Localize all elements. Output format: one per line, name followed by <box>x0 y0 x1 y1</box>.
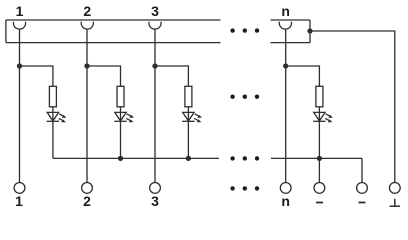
LED channel 2 <box>114 112 134 122</box>
terminal 3 <box>150 183 161 194</box>
LED channel 1 <box>47 112 67 122</box>
junction channel 2 branch <box>85 64 89 68</box>
resistor channel 1 <box>49 86 56 107</box>
junction minus bus / channel 3 <box>186 156 190 160</box>
connector housing top edge (right segment) <box>271 19 311 21</box>
wire channel n branch to resistor <box>286 66 320 86</box>
junction channel n branch <box>284 64 288 68</box>
connector housing bottom edge (right segment) <box>271 42 311 44</box>
terminal label minus 1 <box>316 202 323 204</box>
socket contact 1 <box>13 22 25 29</box>
socket contact 2 <box>81 22 93 29</box>
connector housing bottom edge (left segment) <box>6 42 221 44</box>
connector housing left edge <box>5 20 7 43</box>
ellipsis dots housing row <box>230 28 259 32</box>
svg-text:2: 2 <box>83 3 91 19</box>
terminal label minus 2 <box>359 202 366 204</box>
svg-text:2: 2 <box>83 193 91 209</box>
connector housing right edge <box>309 20 311 43</box>
wire channel 1 main (contact 1 to terminal 1) <box>19 29 21 182</box>
wire channel 1 branch to resistor <box>20 66 53 86</box>
socket contact n <box>279 22 291 29</box>
resistor channel n <box>316 86 323 107</box>
wire channel 3 resistor through LED to minus bus <box>187 107 189 159</box>
wire channel n main (contact n to terminal n) <box>285 29 287 182</box>
wire channel 2 resistor through LED to minus bus <box>120 107 122 159</box>
wire channel 2 main (contact 2 to terminal 2) <box>86 29 88 182</box>
earth ground symbol <box>390 199 400 206</box>
minus bus (left segment) <box>53 157 219 159</box>
svg-text:1: 1 <box>15 193 23 209</box>
socket contact 3 <box>149 22 161 29</box>
svg-text:3: 3 <box>151 3 159 19</box>
wire channel 3 branch to resistor <box>155 66 188 86</box>
junction housing right edge <box>308 29 312 33</box>
svg-text:1: 1 <box>16 3 24 19</box>
LED channel n <box>313 112 333 122</box>
connector housing top edge (left segment) <box>6 19 221 21</box>
terminal earth <box>389 183 400 194</box>
junction channel 3 branch <box>153 64 157 68</box>
ellipsis dots LED row <box>230 95 259 99</box>
wire minus bus to terminal minus 2 <box>361 158 363 182</box>
resistor channel 2 <box>117 86 124 107</box>
wire channel 1 resistor through LED to minus bus <box>52 107 54 159</box>
minus bus (right segment) <box>271 157 362 159</box>
wire minus bus to terminal minus 1 <box>318 158 320 182</box>
terminal minus 1 <box>314 183 325 194</box>
junction minus bus / channel 2 <box>119 156 123 160</box>
wire housing to earth terminal <box>310 31 395 182</box>
terminal 1 <box>14 183 25 194</box>
terminal n <box>280 183 291 194</box>
LED channel 3 <box>182 112 202 122</box>
junction channel 1 branch <box>18 64 22 68</box>
resistor channel 3 <box>185 86 192 107</box>
svg-text:n: n <box>281 193 290 209</box>
terminal minus 2 <box>357 183 368 194</box>
wire channel n resistor through LED to minus bus <box>318 107 320 159</box>
wire channel 3 main (contact 3 to terminal 3) <box>154 29 156 182</box>
svg-text:3: 3 <box>151 193 159 209</box>
ellipsis dots minus bus row <box>230 156 259 160</box>
ellipsis dots terminal row <box>230 186 259 190</box>
svg-text:n: n <box>281 3 290 19</box>
wire channel 2 branch to resistor <box>87 66 121 86</box>
junction minus bus / channel n <box>317 156 321 160</box>
terminal 2 <box>82 183 93 194</box>
